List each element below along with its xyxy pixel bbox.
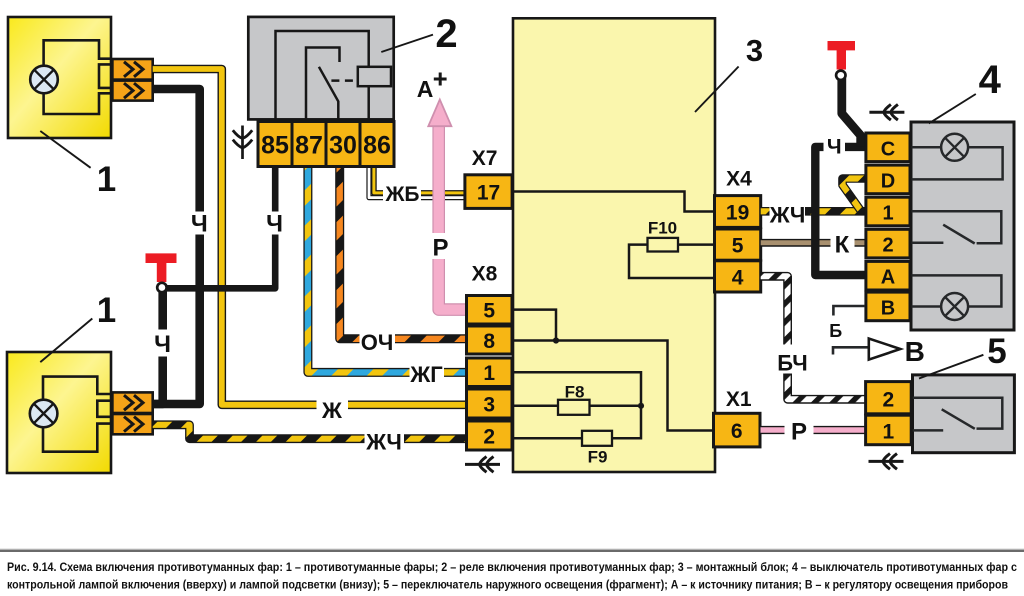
connector X4 pin 4: [715, 261, 761, 292]
svg-text:ЖЧ: ЖЧ: [769, 203, 806, 228]
bulb of lamp 1: [30, 66, 58, 94]
fog lamp 1 (bottom) body: [7, 352, 111, 473]
wire: internal X8-1 to X8-2 loop: [510, 372, 641, 438]
ground symbol near relay: [241, 126, 244, 160]
lamp 2 inner reflector outline: [43, 377, 111, 452]
svg-text:Б: Б: [829, 321, 842, 341]
svg-text:Ч: Ч: [827, 136, 842, 159]
svg-text:Ч: Ч: [266, 211, 283, 238]
svg-text:Ч: Ч: [191, 211, 208, 238]
relay terminal 86: [360, 122, 394, 167]
wire Р: X1-6 to switch5 pin 1: [761, 426, 866, 434]
wire ОЧ: relay 30 to X8-8: [340, 166, 467, 339]
switch4 contact circuit: [911, 211, 1001, 243]
relay contact blade: [319, 67, 338, 120]
svg-text:30: 30: [329, 132, 357, 160]
indicator lamp top: [941, 134, 968, 161]
connector symbol below switch5: [869, 454, 904, 470]
connector X8 pin 5: [467, 296, 513, 325]
svg-text:1: 1: [883, 421, 895, 444]
fuse F8: [558, 400, 590, 415]
wire: internal X8-3 through F8: [510, 405, 641, 408]
switch5 contact circuit: [913, 398, 1003, 429]
junction of X8-5 and X8-8 lines: [553, 337, 559, 343]
svg-text:4: 4: [732, 266, 744, 289]
svg-text:87: 87: [295, 132, 323, 160]
label 1 top lamp with leader: [40, 131, 90, 168]
svg-text:6: 6: [731, 420, 743, 443]
svg-text:Р: Р: [791, 419, 807, 446]
label Р right: [785, 419, 814, 442]
svg-text:C: C: [881, 138, 895, 160]
svg-text:Ж: Ж: [321, 398, 342, 423]
fuse F9: [582, 431, 612, 446]
label ЖГ: [410, 362, 445, 385]
connector X4 pin 19: [715, 196, 761, 228]
wire Б stub from pin B: [833, 306, 865, 316]
label 5 with leader: [919, 355, 983, 379]
switch4 top lamp circuit: [911, 147, 1003, 179]
ground T symbol (left): [146, 253, 177, 263]
label ЖЧ right: [770, 202, 806, 226]
svg-text:контрольной лампой включения (: контрольной лампой включения (вверху) и …: [7, 577, 1008, 591]
wire ЖЧ: X4-19 to switch pins 1 and D: [761, 207, 866, 216]
relay dashed link: [331, 79, 357, 82]
switch5 pin 2: [866, 382, 912, 414]
svg-text:5: 5: [483, 300, 495, 323]
connector X8 pin 1: [467, 358, 513, 387]
svg-text:3: 3: [746, 33, 763, 68]
wire БЧ: X4-4 to switch5 pin 2: [761, 276, 866, 399]
relay terminal 87: [292, 122, 326, 167]
svg-text:К: К: [835, 232, 850, 259]
wire Ч: relay 85 to ground node: [163, 166, 275, 288]
connector X8 pin 3: [467, 389, 513, 418]
svg-text:2: 2: [883, 389, 895, 412]
label К: [831, 232, 855, 255]
svg-text:F10: F10: [648, 219, 677, 238]
fuse F10: [648, 238, 679, 252]
switch 4 body: [911, 122, 1014, 330]
switch4 pin C: [866, 133, 910, 162]
svg-text:17: 17: [477, 182, 500, 205]
svg-text:86: 86: [363, 132, 391, 160]
label Ч on relay85 wire: [267, 212, 284, 235]
svg-text:A: A: [881, 267, 895, 289]
connector X7 pin 17: [465, 175, 512, 209]
lamp 1 inner reflector outline: [44, 40, 111, 114]
label 3 with leader: [695, 67, 739, 113]
svg-text:B: B: [881, 297, 895, 319]
relay 2 body: [248, 17, 393, 120]
connector symbol below X8: [465, 457, 500, 473]
connector of lamp 2: [112, 392, 152, 413]
wire ЖЧ: lamp2 to X8-2: [153, 425, 467, 439]
label Р on arrow: [431, 233, 449, 259]
svg-text:1: 1: [97, 160, 116, 199]
caption separator: [0, 548, 1024, 549]
svg-text:F8: F8: [565, 383, 585, 402]
connector X8 pin 2: [467, 421, 513, 450]
svg-text:ЖГ: ЖГ: [409, 362, 443, 387]
label ОЧ: [360, 328, 396, 353]
node circle right: [836, 71, 845, 80]
svg-text:В: В: [905, 336, 925, 367]
label Ч right: [824, 135, 846, 156]
fog lamp 1 (top) body: [8, 17, 111, 138]
wire: internal X4-5 through F10 to X4-4: [629, 245, 714, 278]
relay coil: [358, 67, 391, 86]
label ЖБ: [383, 184, 421, 203]
switch4 pin B: [866, 292, 910, 321]
svg-text:4: 4: [979, 58, 1002, 102]
label Ч on node-lamp2 wire: [154, 330, 171, 357]
svg-text:X8: X8: [472, 263, 498, 286]
label 4 with leader: [929, 94, 976, 123]
wire Р pink feed arrow А: [439, 122, 467, 310]
wire Ж yellow: lamp1 to X8-3: [153, 69, 467, 405]
label ЖЧ left: [365, 427, 405, 453]
illumination lamp bottom: [941, 293, 968, 320]
connector symbol above C: [869, 104, 904, 120]
wire ЖБ white line: [369, 166, 465, 198]
connector of lamp 1: [112, 59, 152, 80]
wire: internal X7-17 to X4-19: [510, 192, 714, 212]
svg-text:1: 1: [882, 203, 893, 225]
ground T symbol (right): [828, 41, 856, 50]
connector X4 pin 5: [715, 229, 761, 260]
junction on F8 line: [638, 403, 644, 409]
svg-text:ЖБ: ЖБ: [384, 183, 419, 206]
svg-text:Рис. 9.14. Схема включения про: Рис. 9.14. Схема включения противотуманн…: [7, 560, 1017, 574]
svg-text:ОЧ: ОЧ: [361, 330, 394, 355]
switch5 pin 1: [866, 415, 912, 445]
svg-text:3: 3: [483, 394, 495, 417]
svg-text:X4: X4: [726, 167, 752, 190]
wire: internal X8-5 branch: [510, 310, 556, 341]
arrow В to illumination regulator: [833, 347, 869, 354]
relay terminal 85: [258, 122, 292, 167]
svg-text:D: D: [881, 170, 895, 192]
svg-text:1: 1: [97, 291, 116, 330]
svg-text:А: А: [417, 76, 434, 102]
wire К: X4-5 to switch pin 2: [761, 239, 866, 247]
label БЧ: [772, 345, 814, 374]
switch 5 body: [913, 375, 1015, 453]
mounting block 3 body: [513, 18, 715, 472]
svg-text:2: 2: [882, 235, 893, 257]
switch4 pin 2: [866, 229, 910, 258]
wire Ч: body feed to switch pins C and A: [815, 147, 866, 275]
svg-text:ЖЧ: ЖЧ: [365, 430, 402, 455]
svg-text:2: 2: [435, 12, 457, 56]
switch4 bottom lamp circuit: [911, 275, 1001, 306]
svg-text:X1: X1: [726, 388, 752, 411]
relay internal inner winding: [306, 48, 340, 120]
svg-text:БЧ: БЧ: [777, 351, 807, 376]
svg-text:85: 85: [261, 132, 289, 160]
svg-text:2: 2: [483, 426, 495, 449]
svg-text:Ч: Ч: [154, 331, 171, 358]
label 1 bottom lamp with leader: [40, 319, 92, 363]
svg-text:X7: X7: [472, 147, 498, 170]
svg-text:Р: Р: [432, 235, 448, 262]
svg-text:5: 5: [987, 332, 1006, 371]
label Ч on lamp1 wire: [192, 212, 208, 235]
relay terminal 30: [326, 122, 360, 167]
wire ЖГ: relay 87 to X8-1: [308, 166, 467, 372]
connector X8 pin 8: [467, 326, 513, 354]
label Ж: [317, 398, 349, 421]
wire Ч: lamp1 ground black: [153, 89, 200, 404]
wire Ч: node to lamp2: [154, 290, 163, 404]
connector X1 pin 6: [714, 413, 761, 447]
svg-text:5: 5: [732, 235, 744, 258]
bulb of lamp 2: [30, 400, 58, 428]
wire: internal X8-8 to X1-6: [510, 341, 714, 431]
svg-text:8: 8: [483, 330, 495, 353]
ground node circle: [157, 283, 166, 292]
wire ЖБ: relay 86 to X7-17 (yellow line): [374, 166, 465, 193]
switch4 pin A: [866, 261, 910, 290]
label 2 with leader: [381, 35, 433, 52]
svg-text:F9: F9: [588, 448, 608, 467]
relay internal outer winding: [276, 31, 369, 119]
switch4 pin D: [866, 165, 910, 194]
svg-text:1: 1: [483, 362, 495, 385]
svg-text:19: 19: [726, 202, 749, 225]
switch4 pin 1: [866, 197, 910, 226]
